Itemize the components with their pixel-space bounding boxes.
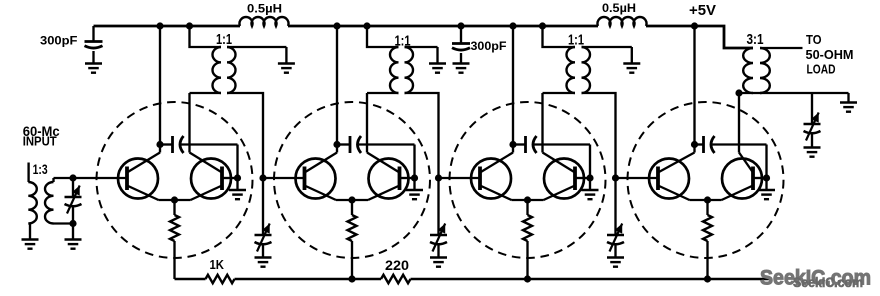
label C2 value 300pF: [471, 39, 507, 53]
label R1 value 1K: [210, 258, 225, 272]
node T2 primary rail junction: [186, 22, 193, 29]
ground at Q6 base: [582, 178, 599, 199]
stage 3 package outline dashed circle: [450, 102, 606, 258]
wire coupling 3 to next base: [616, 177, 659, 179]
wire stage 2 supply feed: [336, 26, 338, 153]
wire stage 3 supply feed: [512, 26, 514, 153]
transformer T4 secondary winding: [582, 47, 591, 93]
wire T2 secondary top to ground: [227, 46, 286, 48]
resistor R emitter stage 2: [348, 200, 357, 279]
svg-text:INPUT: INPUT: [23, 134, 57, 149]
wire Q1 emitter diagonal: [127, 186, 159, 201]
wire T2 primary top feed: [190, 26, 222, 47]
wire emitter common stage 4: [690, 199, 722, 201]
wire Q2 collector riser: [188, 93, 190, 153]
variable capacitor CV tuning 1: [255, 178, 272, 257]
wire Q6 base lead: [575, 177, 590, 179]
svg-text:+5V: +5V: [689, 3, 716, 19]
ground at T4 secondary top: [623, 47, 640, 73]
wire Q3 emitter diagonal: [305, 186, 337, 201]
wire stage 4 cap to base of Q8: [713, 145, 767, 179]
label T4 ratio 1:1: [568, 33, 584, 49]
watermark SeekIC.com: [760, 266, 871, 291]
svg-text:1:3: 1:3: [33, 162, 48, 177]
resistor R emitter stage 3: [523, 200, 532, 279]
svg-text:1K: 1K: [210, 258, 225, 272]
wire Q6 collector riser: [541, 93, 543, 153]
label INPUT: [23, 134, 57, 149]
stage 4 package outline dashed circle: [628, 102, 784, 258]
wire T4 secondary bottom coupling: [582, 93, 616, 178]
wire Q6 collector diagonal: [543, 153, 576, 173]
svg-text:3:1: 3:1: [747, 32, 764, 48]
wire emitter common stage 2: [336, 199, 368, 201]
node Q6 base junction: [586, 174, 593, 181]
label L1 value 0.5µH: [247, 2, 282, 16]
wire bottom bias rail left: [175, 278, 206, 280]
transformer T4 primary winding: [567, 47, 576, 93]
wire stage 1 supply feed: [159, 26, 161, 153]
label L2 value 0.5µH: [602, 1, 636, 15]
wire Q4 emitter diagonal: [368, 186, 400, 201]
node stage 2 supply rail junction: [333, 22, 340, 29]
wire T2 primary bottom to collector: [190, 92, 222, 94]
transistor Q1: [118, 159, 158, 199]
ground below tuning cap 2: [430, 258, 447, 267]
wire emitter common stage 3: [512, 199, 544, 201]
ground below input tank: [65, 224, 82, 249]
node rail junction C2: [457, 22, 464, 29]
node emitter junction stage 2: [348, 196, 355, 203]
stage 2 package outline dashed circle: [274, 102, 430, 258]
label C1 value 300pF: [40, 34, 78, 48]
wire secondary bottom: [54, 222, 74, 224]
wire Q2 collector diagonal: [190, 153, 223, 173]
wire stage 3 cap to base of Q6: [535, 145, 591, 179]
wire T4 primary top feed: [543, 26, 576, 47]
wire coupling 1 to next base: [263, 177, 305, 179]
node interstage coupling 2: [435, 174, 442, 181]
svg-text:50-OHM: 50-OHM: [806, 47, 854, 62]
transistor Q6: [544, 159, 584, 199]
transistor Q3: [296, 159, 336, 199]
transistor Q5: [471, 159, 511, 199]
wire stage 2 cap to base of Q4: [359, 145, 415, 179]
wire stage 4 supply feed: [693, 26, 695, 153]
wire T3 primary bottom to collector: [367, 92, 399, 94]
label TO: [806, 32, 822, 47]
wire +5V to T5 primary: [695, 26, 754, 48]
wire stage 1 cap to base of Q2: [182, 145, 238, 179]
svg-text:0.5µH: 0.5µH: [602, 1, 636, 15]
node interstage coupling 1: [259, 174, 266, 181]
node stage 2 emitter to bottom rail: [348, 275, 355, 282]
capacitor C stage 4 feedback: [695, 136, 715, 153]
transistor Q4: [369, 159, 409, 199]
node stage 1 supply rail junction: [156, 22, 163, 29]
transformer T5 primary winding: [743, 48, 753, 93]
transformer T2 secondary winding: [227, 47, 236, 93]
wire Q2 emitter diagonal: [191, 186, 223, 201]
node +5V junction: [691, 22, 698, 29]
wire Q2 base lead: [222, 177, 238, 179]
node Q2 base junction: [234, 174, 241, 181]
wire T3 secondary bottom coupling: [405, 93, 439, 178]
wire Q8 base lead: [753, 177, 767, 179]
wire Q8 collector diagonal: [739, 153, 753, 173]
node input tank top: [69, 174, 76, 181]
resistor R emitter stage 1: [170, 200, 179, 279]
label T1 ratio 1:3: [33, 162, 48, 177]
wire Q3 collector diagonal: [305, 153, 338, 173]
wire bottom bias rail right: [411, 278, 773, 280]
wire top supply rail segment 2: [288, 25, 598, 28]
variable capacitor CV tuning 3: [607, 178, 624, 257]
wire Q7 emitter diagonal: [658, 186, 690, 201]
node stage 2 collector/cap junction: [333, 141, 340, 148]
capacitor C stage 3 feedback: [513, 136, 537, 153]
variable capacitor CV5 output: [804, 93, 821, 147]
wire Q4 base lead: [400, 177, 415, 179]
capacitor C stage 2 feedback: [337, 136, 361, 153]
ground at T2 secondary top: [278, 47, 295, 73]
wire T4 primary bottom to collector: [543, 92, 576, 94]
ground below Tin primary: [22, 224, 39, 249]
svg-text:300pF: 300pF: [471, 39, 507, 53]
node T5 tap junction: [735, 89, 742, 96]
ground below tuning cap 3: [607, 258, 624, 267]
label T5 ratio 3:1: [747, 32, 764, 48]
transformer T3 primary winding: [390, 47, 399, 93]
capacitor C2 300pF: [452, 26, 470, 63]
label LOAD: [807, 61, 836, 76]
node stage 1 collector/cap junction: [156, 141, 163, 148]
transistor Q8: [722, 159, 762, 199]
inductor L2 0.5µH: [598, 17, 647, 26]
svg-text:220: 220: [385, 258, 409, 273]
node stage 3 supply rail junction: [509, 22, 516, 29]
transformer T3 secondary winding: [405, 47, 414, 93]
wire coupling 2 to next base: [439, 177, 481, 179]
label 60-Mc: [23, 124, 60, 139]
transformer Tin primary winding: [28, 182, 37, 223]
node stage 4 emitter to bottom rail: [704, 275, 711, 282]
wire Q5 collector diagonal: [480, 153, 513, 173]
label R2 value 220: [385, 258, 409, 273]
stage 1 package outline dashed circle: [97, 102, 253, 258]
svg-text:TO: TO: [806, 32, 822, 47]
node stage 3 emitter to bottom rail: [524, 275, 531, 282]
wire T3 primary top feed: [367, 26, 399, 47]
ground at Q4 base: [406, 178, 423, 199]
svg-text:SeekIC.com: SeekIC.com: [793, 275, 863, 290]
ground below C2: [453, 64, 470, 73]
wire top supply rail segment 1: [94, 25, 241, 28]
transformer Tin secondary winding: [45, 182, 54, 223]
capacitor C1 300pF: [85, 26, 103, 63]
svg-text:LOAD: LOAD: [807, 61, 836, 76]
node emitter junction stage 4: [704, 196, 711, 203]
node interstage coupling 3: [612, 174, 619, 181]
variable capacitor CV1 input tank: [65, 178, 82, 224]
ground below tuning cap 1: [255, 258, 272, 267]
capacitor C stage 1 feedback: [160, 136, 184, 153]
node stage 3 collector/cap junction: [509, 141, 516, 148]
node T3 primary rail junction: [363, 22, 370, 29]
label T3 ratio 1:1: [395, 34, 411, 50]
wire secondary top to base: [54, 178, 128, 182]
transformer T2 primary winding: [212, 47, 221, 93]
wire Q6 emitter diagonal: [544, 186, 576, 201]
svg-text:300pF: 300pF: [40, 34, 78, 48]
wire Q8 collector riser: [738, 93, 740, 153]
wire bottom bias rail mid: [235, 278, 382, 280]
node T4 primary rail junction: [539, 22, 546, 29]
wire emitter common stage 1: [159, 199, 191, 201]
wire Q1 collector diagonal: [127, 153, 160, 173]
wire T5 output lead: [760, 47, 803, 49]
node Q8 base junction: [763, 174, 770, 181]
label T2 ratio 1:1: [216, 32, 232, 48]
transformer T5 secondary winding: [760, 48, 770, 93]
wire top supply rail segment 3: [646, 25, 695, 28]
label +5V supply: [689, 3, 716, 19]
node emitter junction stage 1: [171, 196, 178, 203]
ground below CV5: [804, 148, 821, 157]
wire T3 secondary top to ground: [405, 46, 438, 48]
wire Q5 emitter diagonal: [480, 186, 512, 201]
wire T5 bottom tap rail: [739, 92, 849, 94]
ground at T3 secondary top: [429, 47, 446, 73]
node emitter junction stage 3: [524, 196, 531, 203]
wire T2 secondary bottom coupling: [227, 93, 263, 178]
wire Q4 collector riser: [366, 93, 368, 153]
node input tank bottom: [69, 220, 76, 227]
resistor R emitter stage 4: [703, 200, 712, 279]
ground below C1: [85, 64, 102, 73]
wire Q7 collector diagonal: [658, 153, 695, 173]
ground at T5 secondary: [840, 93, 857, 112]
ground at Q8 base: [758, 178, 775, 199]
svg-text:1:1: 1:1: [216, 32, 232, 48]
wire input stub: [27, 163, 29, 183]
wire T4 secondary top to ground: [582, 46, 632, 48]
label 50-OHM: [806, 47, 854, 62]
transistor Q2: [191, 159, 231, 199]
ground at Q2 base: [229, 178, 246, 199]
wire Q8 emitter diagonal: [722, 186, 754, 201]
node stage 4 collector/cap junction: [691, 141, 698, 148]
svg-text:0.5µH: 0.5µH: [247, 2, 282, 16]
resistor R2 220: [381, 275, 411, 283]
wire Q4 collector diagonal: [367, 153, 400, 173]
resistor R1 1K: [206, 275, 235, 283]
node Q4 base junction: [411, 174, 418, 181]
variable capacitor CV tuning 2: [430, 178, 447, 257]
inductor L1 0.5µH: [240, 17, 289, 26]
transistor Q7: [649, 159, 689, 199]
